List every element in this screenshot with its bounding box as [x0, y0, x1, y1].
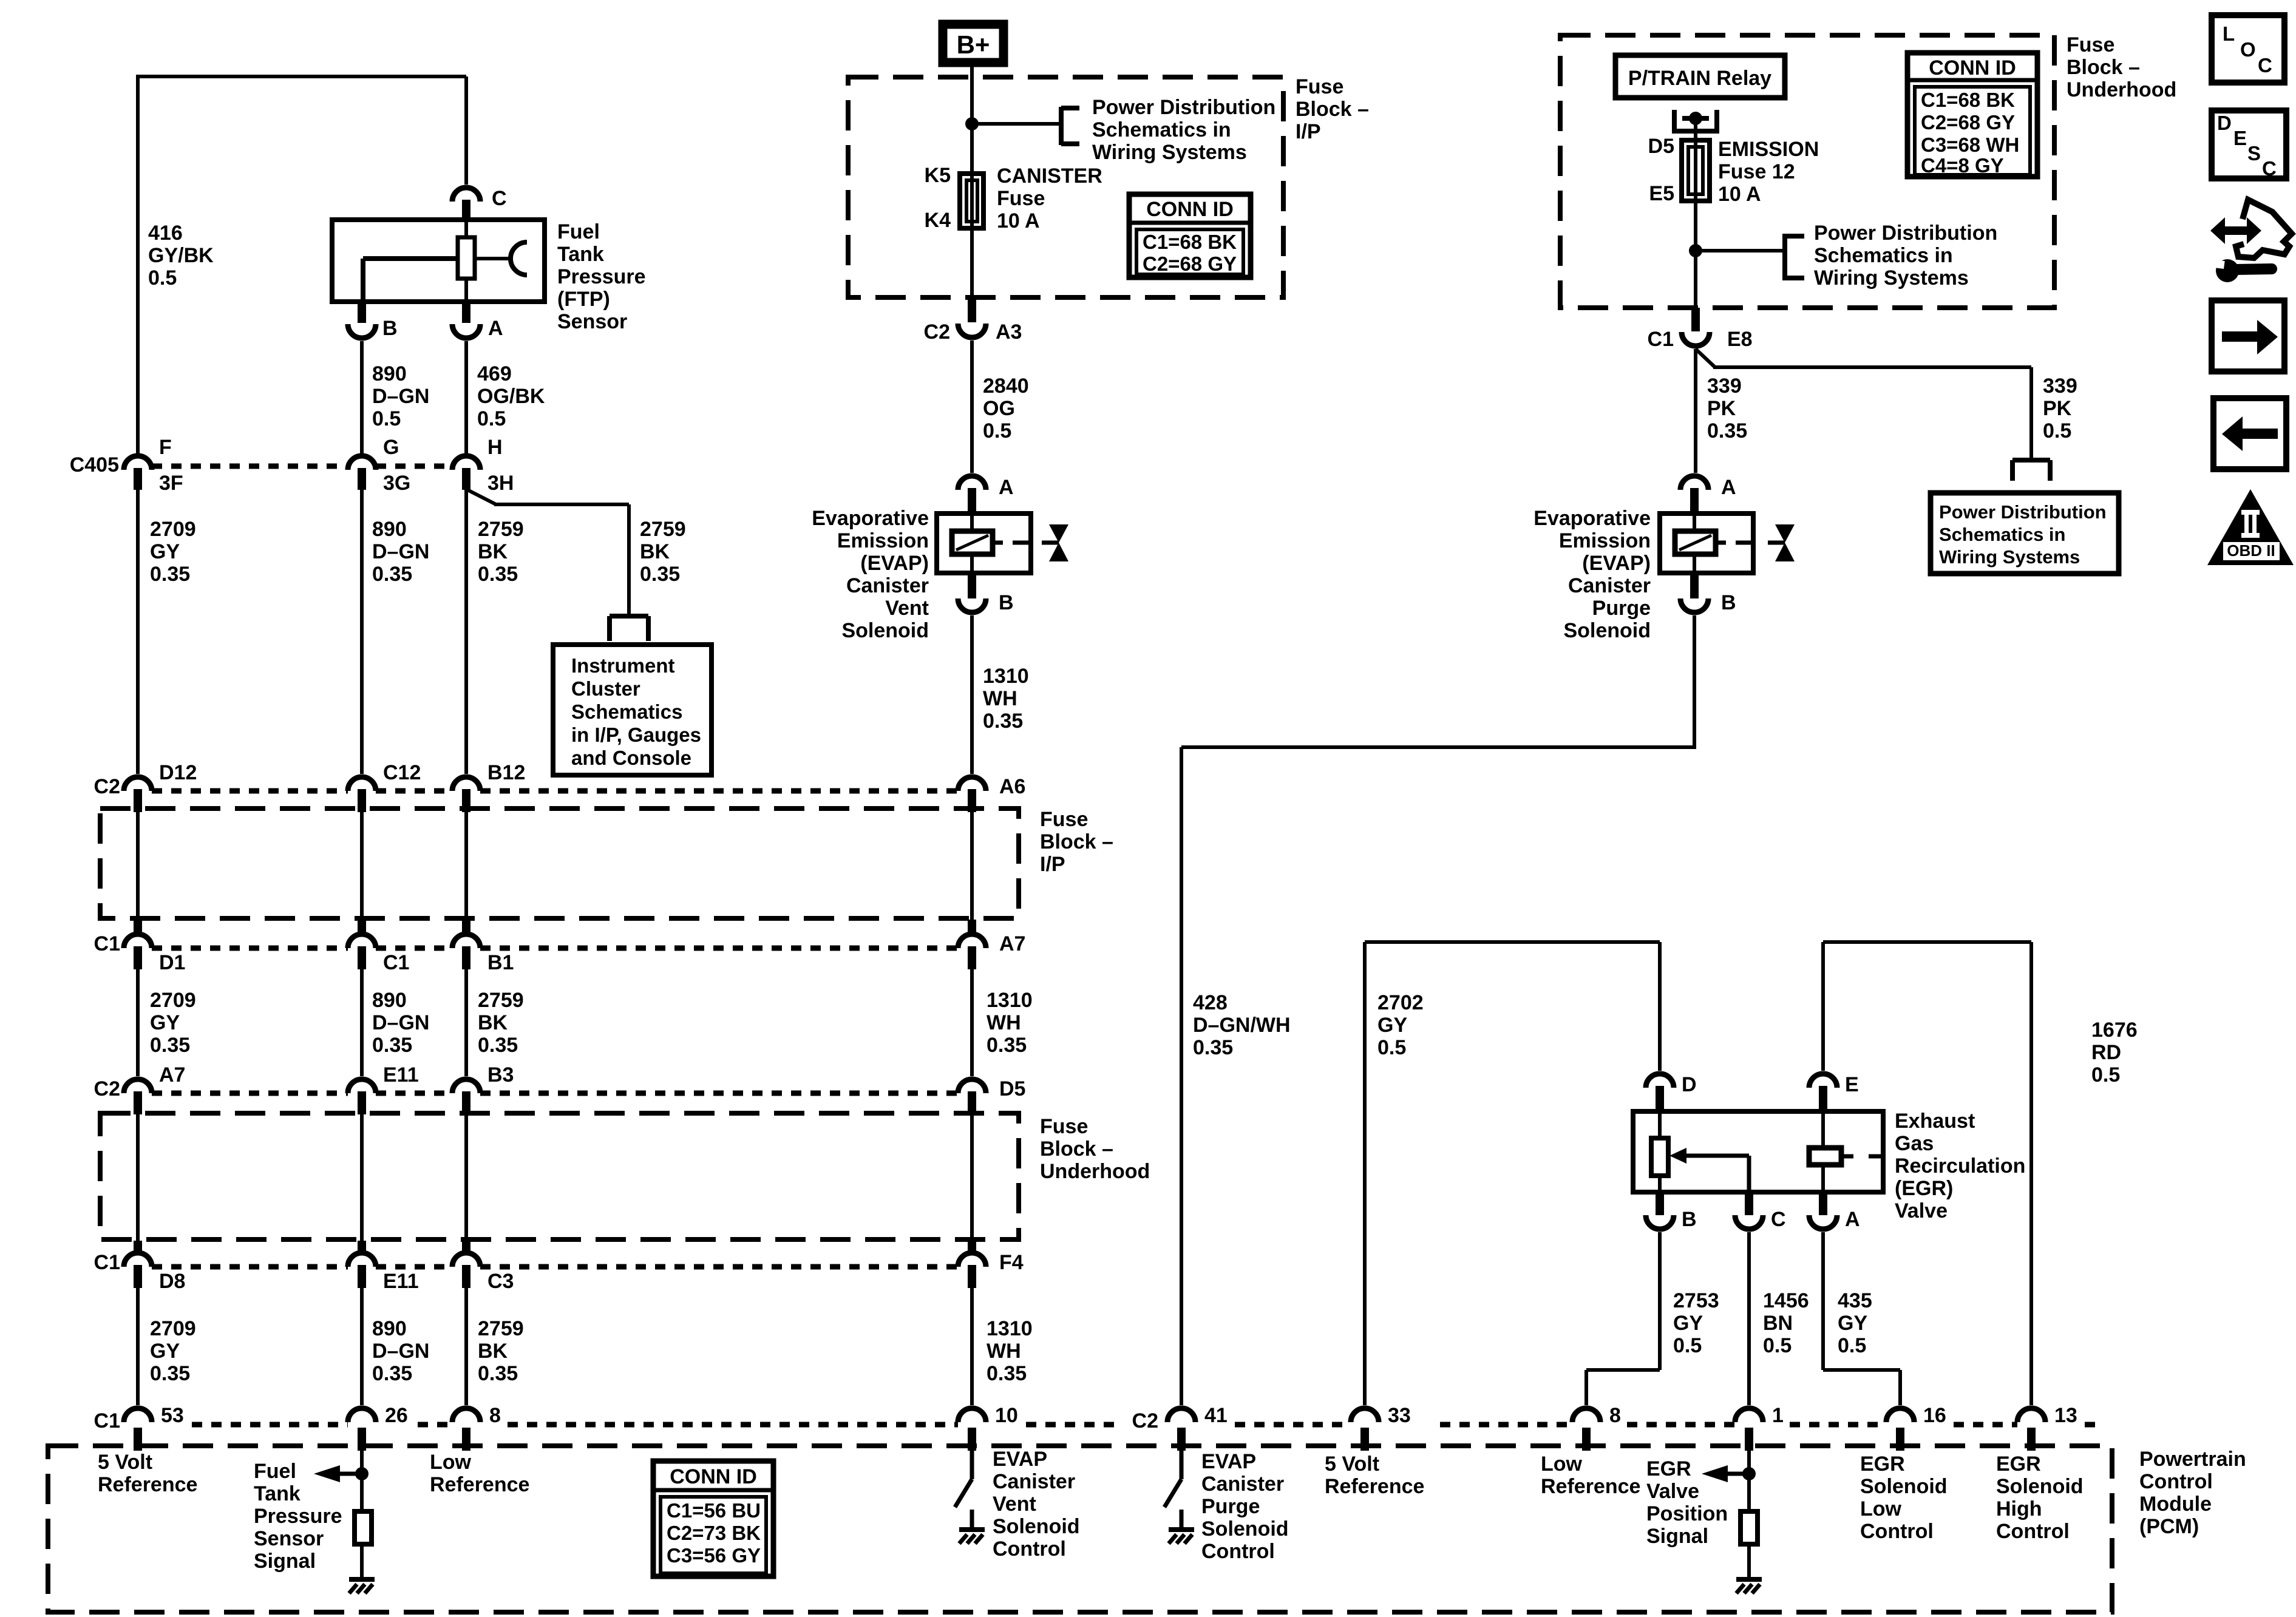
label low reference (right) — [1541, 1453, 1640, 1498]
svg-text:C2: C2 — [94, 775, 120, 798]
label pin B — [382, 317, 398, 340]
svg-text:Valve: Valve — [1895, 1199, 1948, 1222]
label D1 — [159, 951, 185, 974]
svg-text:in I/P, Gauges: in I/P, Gauges — [571, 724, 701, 746]
svg-text:B: B — [999, 591, 1014, 614]
svg-text:469: 469 — [477, 362, 512, 385]
svg-text:C3=56 GY: C3=56 GY — [667, 1544, 761, 1567]
svg-text:EMISSION: EMISSION — [1718, 138, 1819, 161]
FTP signal resistor — [355, 1511, 372, 1544]
svg-text:Gas: Gas — [1895, 1132, 1934, 1155]
svg-text:Tank: Tank — [557, 243, 604, 266]
label D5 right — [999, 1077, 1025, 1100]
label wire 2840 OG 0.5 — [983, 375, 1029, 442]
wire pin C into FTP sensor — [464, 76, 468, 185]
wire junction to power distribution bracket 2 — [1696, 249, 1785, 253]
wire E11-E11 inside fuse block — [360, 1114, 364, 1250]
svg-text:C1=68 BK: C1=68 BK — [1921, 89, 2015, 111]
svg-text:A7: A7 — [159, 1063, 185, 1086]
svg-text:C: C — [492, 187, 507, 210]
svg-text:EVAP: EVAP — [1201, 1450, 1256, 1473]
EGR pin D connector — [1646, 1074, 1674, 1111]
connector C1 E8 — [1682, 308, 1710, 346]
label vent pin A — [999, 476, 1014, 499]
wire 2702 GY vertical — [1363, 942, 1367, 1405]
wire 2759 BK branch diagonal — [466, 489, 496, 504]
wire relay to fuse to C1 E8 — [1694, 118, 1697, 308]
label purge pin B — [1721, 591, 1736, 614]
label A6 — [999, 775, 1025, 798]
dashed row1 C12-B12 — [376, 788, 452, 794]
svg-text:1: 1 — [1772, 1404, 1784, 1427]
svg-text:Canister: Canister — [846, 574, 929, 597]
svg-text:E8: E8 — [1727, 328, 1753, 351]
svg-text:D–GN: D–GN — [372, 1011, 429, 1034]
vent solenoid pin B connector — [958, 573, 986, 612]
svg-text:890: 890 — [372, 989, 407, 1012]
label D8 — [159, 1270, 185, 1293]
svg-text:Purge: Purge — [1592, 597, 1651, 620]
svg-text:Low: Low — [430, 1451, 472, 1474]
fuse block underhood dashed box (top) — [1560, 35, 2054, 308]
fuse block I/P dashed box (top) — [848, 77, 1283, 297]
label pin number 8 at x768 — [489, 1404, 501, 1427]
label A3 — [996, 320, 1022, 344]
svg-text:0.5: 0.5 — [1377, 1036, 1406, 1059]
fuse block I/P dashed box (left) — [100, 808, 1019, 918]
wire 1310 WH vent B to A6 — [970, 615, 974, 774]
svg-text:Solenoid: Solenoid — [1996, 1475, 2084, 1498]
power distribution bracket (underhood) — [1785, 234, 1804, 280]
svg-text:Block –: Block – — [1296, 98, 1369, 121]
EVAP vent control switch — [955, 1451, 972, 1528]
svg-text:E: E — [2233, 127, 2247, 149]
wire 890 D-GN row4-PCM — [360, 1288, 364, 1405]
vent solenoid wire top — [970, 514, 974, 531]
svg-text:D8: D8 — [159, 1270, 185, 1293]
FTP pin B connector — [348, 302, 376, 338]
svg-text:C1: C1 — [1648, 328, 1674, 351]
svg-text:Power Distribution: Power Distribution — [1814, 222, 1997, 245]
svg-text:10 A: 10 A — [1718, 183, 1761, 206]
connector C2 pin A6 — [958, 777, 986, 812]
dashed line C405 G-H — [376, 464, 452, 469]
svg-text:5 Volt: 5 Volt — [1325, 1453, 1379, 1476]
svg-text:Recirculation: Recirculation — [1895, 1154, 2025, 1178]
svg-text:Wiring Systems: Wiring Systems — [1814, 266, 1969, 290]
label pin G — [383, 436, 399, 459]
svg-text:Fuse: Fuse — [1040, 1115, 1088, 1138]
right arrow icon — [2222, 320, 2278, 354]
svg-text:C3=68 WH: C3=68 WH — [1921, 134, 2019, 156]
svg-text:A: A — [1845, 1208, 1860, 1231]
svg-text:13: 13 — [2054, 1404, 2077, 1427]
label wire 1310 WH 0.35 a — [983, 665, 1029, 733]
svg-text:Reference: Reference — [430, 1473, 529, 1496]
connector C2 pin E11 — [348, 1079, 376, 1114]
purge solenoid pin A connector — [1680, 476, 1708, 514]
left arrow icon box — [2213, 398, 2286, 469]
wire pin 1 to EGR position resistor — [1747, 1451, 1751, 1511]
svg-text:Control: Control — [993, 1537, 1066, 1561]
wire 2759 BK branch vertical — [627, 504, 631, 616]
wire 428 D-GN/WH vertical right — [1693, 615, 1696, 747]
purge solenoid coil dashes — [1716, 541, 1753, 545]
svg-text:BN: BN — [1763, 1312, 1793, 1335]
label EMISSION Fuse 12 10 A — [1718, 138, 1819, 206]
wire 2759 BK branch horizontal — [494, 503, 629, 506]
purge solenoid wire top — [1693, 514, 1696, 531]
svg-text:B12: B12 — [487, 761, 525, 784]
svg-text:CONN ID: CONN ID — [1929, 56, 2016, 80]
svg-text:K4: K4 — [925, 209, 951, 232]
label C1 (E8) — [1648, 328, 1674, 351]
svg-text:D12: D12 — [159, 761, 197, 784]
svg-text:D5: D5 — [1648, 135, 1674, 158]
svg-text:BK: BK — [640, 540, 670, 563]
svg-text:EGR: EGR — [1996, 1453, 2041, 1476]
svg-text:H: H — [487, 436, 503, 459]
svg-text:Fuse: Fuse — [1040, 808, 1088, 831]
wire 2840 OG — [970, 341, 974, 473]
svg-text:Low: Low — [1541, 1453, 1583, 1476]
label wire 890 D-GN 0.5 — [372, 362, 429, 430]
EGR solenoid coil — [1809, 1148, 1841, 1165]
label cavity 3G — [383, 472, 410, 495]
svg-text:OBD II: OBD II — [2227, 541, 2275, 560]
svg-text:0.5: 0.5 — [2091, 1063, 2120, 1086]
svg-text:A7: A7 — [999, 932, 1025, 955]
label C2 (A3) — [924, 320, 950, 344]
svg-text:GY: GY — [150, 1011, 180, 1034]
ground EVAP purge control — [1169, 1530, 1194, 1544]
svg-text:GY/BK: GY/BK — [148, 244, 214, 267]
wire B+ to canister fuse — [970, 63, 974, 297]
svg-text:C2: C2 — [924, 320, 950, 344]
wire 435 GY — [1823, 1232, 1900, 1405]
label vent pin B — [999, 591, 1014, 614]
svg-text:(PCM): (PCM) — [2139, 1515, 2199, 1538]
label E5 fuse — [1649, 182, 1674, 205]
dashed row2 D1-C1 — [152, 946, 348, 951]
EGR pin C connector — [1735, 1192, 1763, 1229]
svg-text:Block –: Block – — [1040, 830, 1113, 853]
svg-text:0.35: 0.35 — [983, 710, 1023, 733]
ground EGR position — [1736, 1579, 1762, 1593]
connector C2 pin A7 — [124, 1079, 152, 1114]
left arrow icon — [2222, 416, 2278, 451]
svg-text:C2=68 GY: C2=68 GY — [1143, 253, 1237, 275]
fuel tank pressure sensor box — [332, 220, 545, 302]
dashed row5 segment 1 — [192, 1422, 348, 1428]
EGR pin E connector — [1809, 1074, 1837, 1111]
connector PCM pin 16 at x3130 — [1886, 1408, 1914, 1451]
svg-text:D5: D5 — [999, 1077, 1025, 1100]
svg-text:GY: GY — [150, 540, 180, 563]
svg-text:0.35: 0.35 — [478, 1362, 518, 1385]
wire E8 branch diagonal — [1696, 349, 1715, 367]
label wire 2753 GY 0.5 — [1673, 1289, 1719, 1357]
label pin H — [487, 436, 503, 459]
svg-text:A3: A3 — [996, 320, 1022, 344]
vent solenoid valve symbol — [1042, 524, 1068, 561]
EGR wiper arrow — [1669, 1148, 1749, 1192]
dashed row5 segment 6 — [1440, 1422, 1572, 1428]
svg-text:Canister: Canister — [1201, 1473, 1284, 1496]
purge solenoid wire bottom — [1693, 554, 1696, 573]
wire to EGR pin E — [1821, 942, 1825, 1071]
svg-text:Schematics in: Schematics in — [1939, 524, 2065, 545]
EGR solenoid dashes — [1841, 1154, 1883, 1159]
svg-text:BK: BK — [478, 1011, 508, 1034]
label wire 2759 BK 0.35 c — [478, 1317, 524, 1385]
svg-text:0.5: 0.5 — [2043, 419, 2071, 442]
label wire 1676 RD 0.5 — [2091, 1019, 2138, 1086]
wire 2709 GY row4-PCM — [136, 1288, 140, 1405]
dashed row4 D8-E11 — [152, 1264, 348, 1270]
label wire 339 PK 0.35 — [1707, 375, 1747, 442]
svg-text:PK: PK — [1707, 397, 1736, 420]
EGR position resistor — [1741, 1511, 1758, 1544]
label C1 row4 — [94, 1251, 120, 1274]
svg-text:C2=68 GY: C2=68 GY — [1921, 111, 2015, 134]
svg-text:Solenoid: Solenoid — [993, 1515, 1080, 1538]
connector C405 pin H — [452, 456, 480, 490]
dashed line C405 F-G — [152, 464, 348, 469]
junction node emission feed — [1689, 244, 1702, 257]
label E8 — [1727, 328, 1753, 351]
dashed row5 segment 9 — [1954, 1422, 2017, 1428]
label Instrument Cluster Schematics — [571, 654, 701, 769]
svg-text:Fuse: Fuse — [2067, 33, 2114, 56]
svg-text:2702: 2702 — [1377, 991, 1424, 1014]
svg-text:E: E — [1845, 1073, 1859, 1096]
connector C405 pin F — [124, 456, 152, 490]
svg-text:2709: 2709 — [150, 518, 196, 541]
wire FTP resistor to ground — [360, 1544, 364, 1579]
svg-text:D–GN: D–GN — [372, 385, 429, 408]
label cavity 3F — [159, 472, 183, 495]
label EGR Solenoid High Control — [1996, 1453, 2084, 1543]
wire C12-C1 inside fuse block — [360, 812, 364, 931]
label wire 428 D-GN/WH 0.35 — [1193, 991, 1291, 1059]
vent solenoid wire bottom — [970, 554, 974, 573]
fuse block underhood dashed box (left) — [100, 1113, 1019, 1239]
svg-text:Wiring Systems: Wiring Systems — [1939, 546, 2080, 568]
svg-text:2709: 2709 — [150, 989, 196, 1012]
svg-text:P/TRAIN Relay: P/TRAIN Relay — [1628, 67, 1771, 90]
label wire 2759 BK 0.35 b — [478, 989, 524, 1057]
label EGR Valve Position Signal — [1646, 1457, 1728, 1548]
connector C1 pin B1 — [452, 920, 480, 969]
label EVAP Canister Vent Solenoid Control — [993, 1448, 1080, 1561]
connector C2 pin D12 — [124, 777, 152, 812]
svg-text:3H: 3H — [487, 472, 514, 495]
DESC icon letters — [2217, 112, 2277, 180]
svg-text:Signal: Signal — [1646, 1525, 1708, 1548]
wire 890 D-GN row2-row3 — [360, 969, 364, 1076]
right arrow icon box — [2212, 300, 2284, 371]
wire 2709 GY C405 to C2 D12 — [136, 490, 140, 774]
dashed row1 B12-A6 — [480, 788, 958, 794]
FTP pressure port arc — [511, 242, 527, 275]
svg-text:0.35: 0.35 — [1193, 1036, 1233, 1059]
wire to EGR pin D — [1658, 942, 1662, 1071]
EGR solenoid wire bottom — [1821, 1165, 1825, 1192]
svg-text:10 A: 10 A — [997, 209, 1040, 232]
powertrain control module dashed box — [48, 1446, 2112, 1612]
svg-text:2759: 2759 — [640, 518, 686, 541]
svg-text:0.5: 0.5 — [1763, 1334, 1792, 1357]
svg-text:C1: C1 — [94, 1251, 120, 1274]
wire B3-C3 inside fuse block — [464, 1114, 468, 1250]
label C1 row5 — [94, 1409, 120, 1432]
svg-text:0.5: 0.5 — [983, 419, 1011, 442]
wire pin 26 to FTP signal resistor — [360, 1451, 364, 1511]
P/TRAIN Relay box — [1615, 55, 1785, 98]
svg-text:C2: C2 — [1132, 1409, 1158, 1432]
wire 1456 BN — [1747, 1232, 1751, 1405]
dashed row5 segment 8 — [1790, 1422, 1886, 1428]
label K4 — [925, 209, 951, 232]
dashed row2 C1-B1 — [376, 946, 452, 951]
dashed row1 D12-C12 — [152, 788, 348, 794]
label C1 pin — [383, 951, 409, 974]
svg-text:C: C — [1771, 1208, 1786, 1231]
svg-text:Underhood: Underhood — [1040, 1160, 1150, 1183]
svg-text:Reference: Reference — [1325, 1475, 1424, 1498]
svg-text:0.35: 0.35 — [987, 1034, 1027, 1057]
wire 339 PK 0.35 vertical — [1694, 349, 1697, 473]
svg-text:EVAP: EVAP — [993, 1448, 1047, 1471]
svg-text:GY: GY — [1838, 1312, 1867, 1335]
wire 428 D-GN/WH horizontal — [1181, 745, 1696, 749]
label wire 890 D-GN 0.35 a — [372, 518, 429, 586]
svg-text:D: D — [2217, 112, 2232, 134]
svg-text:8: 8 — [1609, 1404, 1621, 1427]
svg-text:Tank: Tank — [254, 1482, 301, 1505]
svg-text:GY: GY — [1673, 1312, 1703, 1335]
label wire 2759 BK 0.35 branch — [640, 518, 686, 586]
svg-text:2759: 2759 — [478, 1317, 524, 1340]
label Evaporative Emission (EVAP) Canister Vent Solenoid — [812, 507, 929, 642]
svg-text:Emission: Emission — [1559, 529, 1651, 552]
relay contact node — [1689, 112, 1702, 125]
svg-text:Fuel: Fuel — [557, 220, 600, 243]
svg-text:F4: F4 — [999, 1251, 1024, 1274]
connector PCM pin 41 at x1946 — [1167, 1408, 1195, 1451]
label wire 890 D-GN 0.35 b — [372, 989, 429, 1057]
label EGR pin D — [1682, 1073, 1697, 1096]
EGR pot wire top — [1658, 1111, 1662, 1138]
svg-text:Schematics: Schematics — [571, 700, 682, 723]
label pin number 16 at x3130 — [1923, 1404, 1946, 1427]
LOC icon letters — [2223, 22, 2272, 76]
label C405 — [70, 453, 119, 476]
svg-text:2759: 2759 — [478, 989, 524, 1012]
EGR valve box — [1633, 1111, 1883, 1192]
svg-text:1310: 1310 — [987, 989, 1033, 1012]
svg-text:2753: 2753 — [1673, 1289, 1719, 1312]
svg-text:Fuse: Fuse — [997, 187, 1045, 210]
svg-text:WH: WH — [987, 1011, 1021, 1034]
label A7 row3 — [159, 1063, 185, 1086]
svg-text:(EGR): (EGR) — [1895, 1177, 1953, 1200]
connector C1 pin A7 — [958, 920, 986, 969]
connector PCM pin 33 at x2248 — [1351, 1408, 1379, 1451]
svg-text:Position: Position — [1646, 1502, 1728, 1525]
svg-text:OG: OG — [983, 397, 1015, 420]
dashed row5 segment 3 — [508, 1422, 958, 1428]
label Fuel Tank Pressure Sensor Signal — [254, 1460, 342, 1573]
label Power Distribution Schematics (underhood) — [1814, 222, 1997, 290]
dashed row5 segment 5 — [1235, 1422, 1351, 1428]
wire 2759 BK C405 to C2 B12 — [464, 490, 468, 774]
OBD II triangle icon — [2207, 489, 2294, 565]
svg-text:Instrument: Instrument — [571, 654, 675, 677]
connector C2 pin B12 — [452, 777, 480, 812]
svg-text:10: 10 — [995, 1404, 1018, 1427]
label P/TRAIN Relay — [1628, 67, 1771, 90]
label B12 — [487, 761, 525, 784]
label wire 2702 GY 0.5 — [1377, 991, 1424, 1059]
connector C1 pin E11 row4 — [348, 1241, 376, 1288]
label pin number 41 at x1946 — [1204, 1404, 1228, 1427]
svg-text:BK: BK — [478, 1340, 508, 1363]
svg-text:Module: Module — [2139, 1493, 2212, 1516]
dashed row4 E11-C3 — [376, 1264, 452, 1270]
svg-text:Low: Low — [1860, 1497, 1902, 1520]
EGR pin A connector — [1809, 1192, 1837, 1229]
EGR pot wire bottom — [1658, 1176, 1662, 1192]
FTP pin A connector — [452, 302, 480, 338]
wire 416 GY/BK left vertical — [136, 75, 140, 455]
svg-text:CONN ID: CONN ID — [1146, 198, 1234, 221]
connector C1 pin D8 — [124, 1241, 152, 1288]
svg-text:WH: WH — [983, 687, 1017, 710]
EGR pin B connector — [1646, 1192, 1674, 1229]
label pin number 33 at x2248 — [1388, 1404, 1411, 1427]
svg-text:Fuel: Fuel — [254, 1460, 296, 1483]
label wire 2709 GY 0.35 a — [150, 518, 196, 586]
dashed row3 B3-D5 — [480, 1091, 958, 1096]
svg-text:3F: 3F — [159, 472, 183, 495]
svg-text:Canister: Canister — [993, 1470, 1075, 1493]
svg-text:428: 428 — [1193, 991, 1228, 1014]
label B+ — [957, 30, 990, 59]
diagnostic icon wrench — [2215, 259, 2272, 282]
connector C2 pin B3 — [452, 1079, 480, 1114]
svg-text:Control: Control — [2139, 1470, 2213, 1493]
svg-text:0.35: 0.35 — [372, 563, 412, 586]
label wire 435 GY 0.5 — [1838, 1289, 1872, 1357]
svg-text:B+: B+ — [957, 30, 990, 59]
label pin C — [492, 187, 507, 210]
svg-text:Control: Control — [1860, 1520, 1934, 1543]
DESC icon box — [2212, 110, 2286, 178]
wire 1676 RD horizontal — [1823, 940, 2031, 944]
wire D5-F4 inside fuse block — [970, 1114, 974, 1250]
label pin number 1 at x2881 — [1772, 1404, 1784, 1427]
svg-text:5 Volt: 5 Volt — [98, 1451, 152, 1474]
svg-text:WH: WH — [987, 1340, 1021, 1363]
vent solenoid coil dashes — [993, 541, 1031, 545]
svg-text:Solenoid: Solenoid — [1563, 619, 1651, 642]
svg-text:(EVAP): (EVAP) — [1582, 552, 1651, 575]
vent solenoid pin A connector — [958, 476, 986, 514]
svg-text:S: S — [2247, 142, 2261, 164]
svg-text:E11: E11 — [383, 1270, 419, 1293]
